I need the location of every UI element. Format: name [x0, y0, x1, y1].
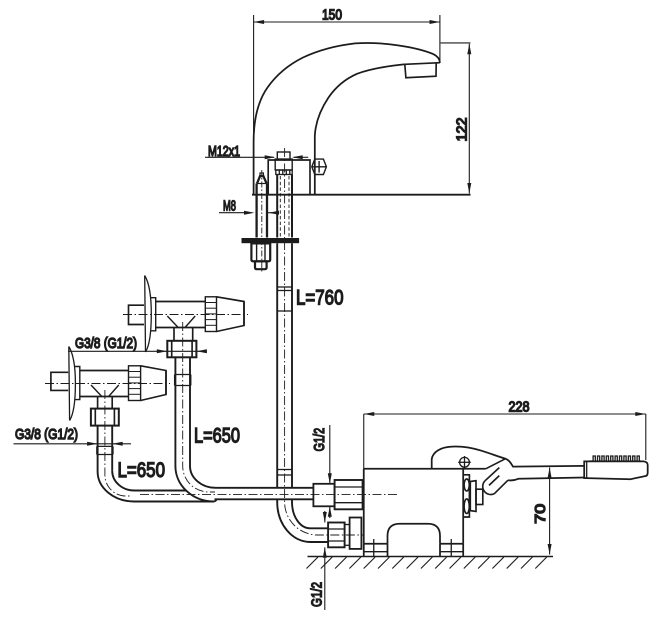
- svg-text:G1/2: G1/2: [309, 582, 325, 607]
- plunger: [483, 468, 508, 495]
- G3/8 lower leader line: [14, 442, 132, 446]
- upper valve body: [156, 302, 206, 328]
- main pipe below counter: [277, 243, 292, 487]
- G1/2 bottom dimension: [323, 511, 327, 610]
- upper valve outlet pipe: [175, 357, 190, 466]
- main pipe bottom bend: [277, 500, 328, 542]
- main pipe collar top: [277, 287, 293, 311]
- upper fitting collar: [313, 484, 334, 507]
- knurled nut under shank block: [276, 170, 292, 175]
- upper fitting hex: [335, 480, 363, 509]
- upper valve horizontal centerline: [123, 314, 248, 316]
- faucet base inner box: [268, 160, 310, 195]
- G3/8 upper leader line: [68, 349, 207, 353]
- M8 rod end cap: [255, 261, 267, 269]
- faucet aerator box: [405, 64, 436, 78]
- svg-text:G3/8 (G1/2): G3/8 (G1/2): [15, 427, 78, 443]
- pedal valve body: [364, 469, 463, 544]
- dimension 150 line: [254, 15, 440, 142]
- M8 rod centerline: [261, 170, 263, 272]
- upper valve pipe collar: [175, 375, 191, 386]
- pedal pad: [584, 461, 648, 479]
- dimension 70: [548, 468, 552, 555]
- main riser pipe (faucet shank): [277, 175, 292, 238]
- svg-text:L=650: L=650: [194, 424, 240, 448]
- G1/2 top dimension: [328, 425, 332, 518]
- lower fitting hex: [328, 523, 345, 548]
- svg-text:150: 150: [322, 8, 342, 24]
- M8 nut below counter: [251, 243, 270, 261]
- hump notch: [486, 459, 506, 469]
- pedal pad teeth: [589, 456, 642, 461]
- cam block: [476, 489, 483, 504]
- main pipe collar bottom: [277, 470, 292, 476]
- dimension 122 line: [441, 43, 472, 194]
- lower valve branch centerline: [105, 390, 132, 496]
- M8 dimension: [219, 211, 279, 215]
- pivot bracket plate: [464, 475, 469, 517]
- pedal valve body bottom and feet: [364, 539, 463, 557]
- M12x1 dimension: [205, 155, 308, 159]
- floor hatching: [307, 557, 547, 569]
- M12x1 stud: [277, 152, 290, 159]
- upper valve branch centerline: [183, 322, 215, 492]
- upper valve flange hub: [151, 298, 156, 331]
- upper valve cone handle: [217, 297, 245, 332]
- lower fitting block: [350, 518, 362, 549]
- pivot spacer: [470, 481, 476, 512]
- upper valve branch neck: [174, 328, 193, 341]
- lower valve nut: [91, 409, 119, 426]
- pedal pad inner line: [586, 461, 588, 478]
- lower valve cone handle: [141, 366, 166, 401]
- pedal arm bottom line: [508, 478, 584, 481]
- lower valve tee V: [91, 385, 119, 397]
- hex nut right of faucet base: [312, 159, 327, 174]
- svg-text:122: 122: [455, 118, 471, 142]
- svg-text:228: 228: [509, 400, 530, 416]
- lower valve body: [80, 371, 129, 397]
- upper angle valve flange: [145, 276, 152, 353]
- svg-text:M12x1: M12x1: [208, 144, 240, 160]
- deck line: [252, 194, 471, 196]
- svg-text:G3/8 (G1/2): G3/8 (G1/2): [75, 336, 137, 352]
- lower valve outlet pipe: [98, 426, 113, 472]
- lower valve knurled ring: [129, 366, 141, 401]
- faucet spout inner curve: [315, 64, 405, 194]
- lower valve flange hub: [75, 367, 80, 400]
- floor line: [308, 556, 554, 558]
- main pipe centerline: [285, 148, 363, 535]
- svg-text:L=650: L=650: [118, 458, 166, 482]
- upper valve wall stem: [129, 305, 145, 324]
- thread dashed lines in shank: [279, 176, 281, 237]
- pipe B bend (lower valve): [98, 471, 214, 502]
- pedal valve arch cutout: [388, 524, 441, 544]
- M12x1 shank block: [275, 159, 292, 170]
- faucet spout tip underside: [405, 63, 440, 65]
- lower valve branch neck: [98, 397, 113, 409]
- pipe A bend (upper valve): [175, 466, 313, 502]
- pedal valve top line: [364, 468, 486, 470]
- svg-text:70: 70: [533, 504, 549, 524]
- lower valve pipe collar: [97, 446, 113, 454]
- faucet spout outer curve: [254, 43, 440, 195]
- upper valve tee V: [167, 316, 195, 328]
- lower valve wall stem: [51, 372, 68, 390]
- svg-text:L=760: L=760: [296, 286, 344, 310]
- pivot screw: [458, 456, 471, 469]
- counter bar: [242, 238, 300, 243]
- M8 rod: [257, 173, 267, 238]
- svg-text:M8: M8: [223, 199, 236, 215]
- run centerline: [140, 494, 398, 496]
- dimension 228: [364, 412, 646, 469]
- pedal lever hump: [432, 447, 585, 469]
- svg-text:G1/2: G1/2: [312, 428, 328, 452]
- lower angle valve flange: [69, 347, 76, 421]
- upper valve knurled ring: [205, 297, 216, 332]
- lower valve horizontal centerline: [45, 383, 170, 385]
- upper valve nut: [167, 341, 196, 358]
